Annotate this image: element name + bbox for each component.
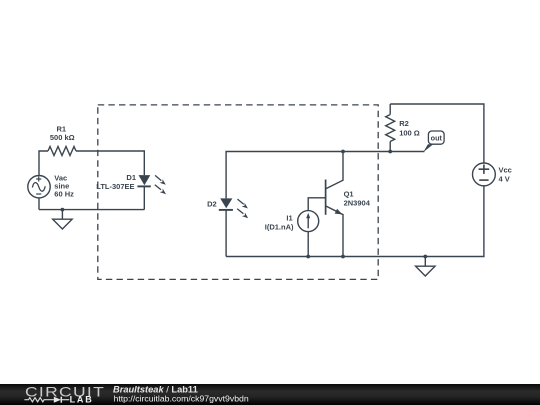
LED D2 — [219, 198, 248, 218]
wire I1 node to emitter node — [308, 256, 343, 258]
svg-text:D2: D2 — [207, 200, 217, 209]
wire R1 right to D1 anode — [76, 151, 144, 175]
wire bottom left loop — [39, 209, 144, 211]
wire Vac bottom — [38, 198, 40, 210]
svg-text:60 Hz: 60 Hz — [54, 190, 74, 199]
node junction I1 bottom — [306, 255, 310, 259]
wire D2 cathode down — [225, 210, 227, 257]
resistor R1 — [48, 147, 76, 156]
wire ground node to Vcc bottom — [425, 186, 484, 257]
svg-text:Vcc: Vcc — [499, 166, 512, 175]
node junction collector top — [341, 150, 345, 154]
footer bar — [0, 384, 540, 405]
current source I1 — [298, 211, 319, 232]
wire collector node to R2 node — [343, 151, 390, 153]
CircuitLab logo resistor zigzag — [24, 398, 53, 402]
wire Vac top to R1 left — [39, 151, 48, 176]
wire emitter node to ground node — [343, 256, 425, 258]
CircuitLab logo diode — [54, 397, 70, 403]
voltage source V1 Vac — [28, 176, 50, 198]
node junction left ground — [61, 208, 65, 212]
svg-text:LTL-307EE: LTL-307EE — [96, 182, 134, 191]
svg-text:http://circuitlab.com/ck97gvvt: http://circuitlab.com/ck97gvvt9vbdn — [114, 394, 249, 404]
wire D2 anode to collector node (inner top-left) — [226, 152, 343, 199]
wire I1 bottom — [307, 232, 309, 257]
wire D1 cathode down — [143, 186, 145, 209]
voltage source Vcc — [473, 163, 496, 186]
wire I1 top to Q1 base — [308, 198, 325, 211]
svg-text:out: out — [431, 134, 443, 143]
svg-text:2N3904: 2N3904 — [344, 198, 371, 207]
svg-text:LAB: LAB — [70, 394, 94, 404]
optocoupler boundary dashed box — [98, 105, 378, 280]
wire inner bottom: D2 to I1 node — [226, 256, 308, 258]
transistor Q1 — [326, 152, 343, 257]
ground (right) — [416, 257, 435, 277]
svg-text:I(D1.nA): I(D1.nA) — [265, 222, 294, 231]
node junction right ground — [423, 255, 427, 259]
wire R2 node to out flag — [390, 151, 424, 153]
svg-text:Q1: Q1 — [344, 190, 354, 199]
LED D1 — [137, 175, 166, 194]
svg-text:R2: R2 — [399, 119, 409, 128]
svg-text:4 V: 4 V — [499, 175, 510, 184]
wire top right: R2 top to Vcc top — [390, 104, 484, 163]
svg-text:500 kΩ: 500 kΩ — [50, 133, 75, 142]
net flag out — [423, 131, 444, 152]
node junction R2 bottom — [388, 150, 392, 154]
resistor R2 — [386, 104, 395, 152]
svg-text:100 Ω: 100 Ω — [399, 129, 420, 138]
svg-text:I1: I1 — [286, 214, 292, 223]
svg-text:D1: D1 — [126, 173, 136, 182]
ground (left) — [53, 210, 72, 229]
node junction emitter bottom — [341, 255, 345, 259]
